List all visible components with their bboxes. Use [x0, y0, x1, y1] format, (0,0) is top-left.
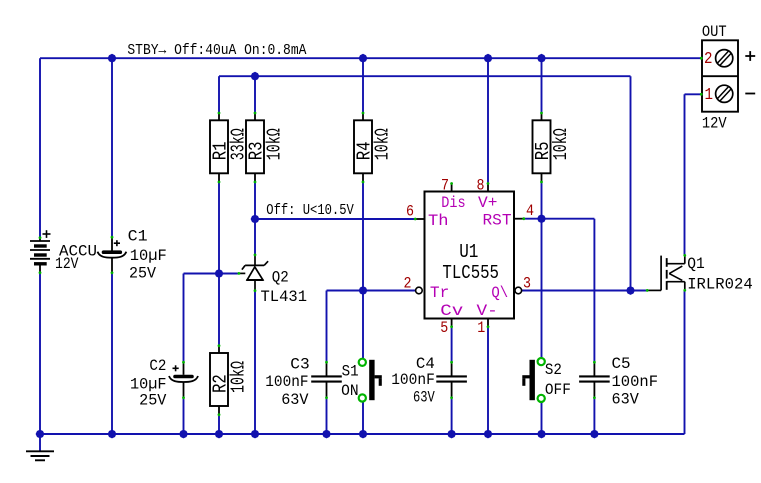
wire V- pin1 to ground rail: [487, 327, 489, 434]
Q2 TL431 anode lead: [254, 280, 256, 291]
U1 pin 8 stub: [487, 183, 489, 191]
svg-text:TL431: TL431: [261, 288, 308, 306]
Q2 TL431 triangle: [247, 267, 263, 280]
svg-text:IRLR024: IRLR024: [687, 276, 753, 294]
junction at 488,58.2: [484, 54, 493, 63]
svg-text:63V: 63V: [612, 390, 640, 408]
wire Th net horizontal: [255, 218, 415, 220]
svg-text:10kΩ: 10kΩ: [264, 128, 286, 160]
resistor R1 pins: [218, 113, 220, 182]
svg-text:5: 5: [440, 319, 448, 337]
svg-text:STBY→ Off:40uA On:0.8mA: STBY→ Off:40uA On:0.8mA: [127, 42, 306, 59]
junction rail 363: [359, 430, 368, 439]
switch S2 button: [522, 360, 535, 400]
svg-text:Tr: Tr: [430, 284, 449, 302]
battery pin ends: [39, 236, 42, 274]
svg-text:10kΩ: 10kΩ: [228, 361, 250, 393]
U1 pin 3 inverting circle: [515, 287, 522, 294]
wire C5 bottom: [593, 398, 595, 434]
Q1 drain connection: [667, 255, 685, 264]
junction at 219,273.5: [215, 269, 224, 278]
wire R5 bottom to RST node: [541, 183, 543, 219]
svg-text:OUT: OUT: [702, 23, 727, 41]
resistor R4 pin ends: [362, 112, 365, 184]
svg-text:12V: 12V: [55, 255, 79, 273]
svg-text:RST: RST: [483, 211, 512, 229]
Q1 bulk arrow: [669, 266, 682, 280]
Q1 gate bar: [660, 256, 662, 291]
resistor R5 pins: [541, 113, 543, 182]
junction rail 183.5: [179, 430, 188, 439]
junction at 255,76.2: [251, 72, 260, 81]
svg-text:C1: C1: [128, 228, 148, 246]
resistor R2 body: [210, 353, 228, 406]
svg-text:8: 8: [477, 177, 485, 195]
switch S2 contacts: [538, 358, 545, 402]
wire V+ pin8 drop: [487, 58, 489, 184]
wire OUT- to Q1 drain: [684, 94, 686, 255]
junction rail 255: [251, 430, 260, 439]
Q2 TL431 cathode bar with ticks: [242, 261, 268, 269]
wire RST to C5 drop: [593, 219, 595, 362]
capacitor C2 plates: [169, 376, 198, 382]
junction at 112,58.2: [108, 54, 117, 63]
battery minus lead: [39, 264, 41, 273]
svg-text:3: 3: [523, 275, 531, 293]
U1 pin 1 stub: [487, 319, 489, 328]
C4 pin ends: [450, 361, 453, 399]
resistor R1 pin ends: [218, 112, 221, 184]
wire output feedback horizontal: [219, 75, 631, 77]
svg-text:2: 2: [704, 49, 713, 68]
wire C4 bottom: [451, 398, 453, 434]
resistor R4 body: [354, 120, 372, 173]
resistor R5 body: [533, 120, 551, 173]
plus terminal sign: [745, 51, 755, 61]
svg-text:7: 7: [441, 177, 449, 195]
wire R4 bottom to Tr node: [362, 183, 364, 291]
svg-text:63V: 63V: [413, 389, 435, 407]
capacitor C5 plates: [579, 376, 610, 381]
junction at 541.5,218.7: [537, 214, 546, 223]
battery plus sign: [43, 230, 51, 238]
svg-text:25V: 25V: [139, 392, 167, 410]
svg-text:Th: Th: [428, 212, 449, 230]
wire R3 top stub: [254, 76, 256, 113]
connector OUT body: [702, 40, 738, 111]
Q2 TL431 anode bar: [246, 279, 263, 281]
svg-text:25V: 25V: [129, 264, 156, 282]
svg-text:10µF: 10µF: [130, 247, 167, 265]
C5 pin ends: [593, 361, 596, 399]
ground symbol: [26, 451, 54, 460]
svg-text:Cv: Cv: [440, 302, 463, 320]
capacitor C3 leads: [326, 362, 328, 398]
svg-text:100nF: 100nF: [265, 373, 308, 391]
capacitor C2 leads: [183, 362, 185, 398]
C1 pin ends: [111, 236, 114, 274]
wire C1 bottom: [111, 273, 113, 434]
wire C3 bottom: [326, 398, 328, 434]
junction at 363,290.5: [359, 286, 368, 295]
wire R2 bottom: [218, 416, 220, 434]
junction rail 219: [215, 430, 224, 439]
wire OUT- horizontal: [685, 93, 702, 95]
capacitor C1 plates: [98, 252, 127, 258]
connector screw terminal 1: [716, 85, 733, 102]
wire Q1 source down: [684, 291, 686, 435]
junction rail 488: [484, 430, 493, 439]
resistor R2 pins: [218, 346, 220, 415]
svg-text:V-: V-: [477, 302, 498, 320]
U1 pin 4 stub: [514, 218, 524, 220]
U1 pin 6 stub: [415, 218, 425, 220]
svg-text:Q1: Q1: [687, 255, 705, 273]
wire C2 drop: [183, 274, 185, 363]
capacitor C4 leads: [451, 362, 453, 398]
wire R1 bottom to ref node: [218, 183, 220, 274]
OUT pin ends: [700, 57, 703, 96]
svg-text:V+: V+: [478, 194, 497, 212]
resistor R3 pins: [254, 113, 256, 182]
wire C2 bottom: [183, 398, 185, 434]
wire left rail battery top: [39, 58, 41, 238]
junction rail 451.6: [447, 430, 456, 439]
capacitor C4 plates: [436, 376, 467, 381]
Q2 pin ends: [238, 254, 257, 293]
connector screw terminal 2: [716, 50, 733, 67]
wire R3 bottom to Th node: [254, 183, 256, 256]
C3 pin ends: [325, 361, 328, 399]
wire feedback vertical to Q node: [630, 76, 632, 290]
C2 plus sign: [173, 365, 179, 371]
svg-text:63V: 63V: [281, 391, 309, 409]
svg-text:S1: S1: [342, 363, 359, 381]
wire +12V top rail: [40, 57, 701, 59]
wire Cv to C4: [451, 327, 453, 362]
Q1 channel dashes: [666, 258, 668, 290]
op-amp U1 TLC555 body: [425, 192, 515, 319]
minus terminal sign: [745, 93, 755, 95]
Q2 TL431 reference pin: [239, 272, 246, 274]
wire ref node horizontal to C2: [184, 273, 239, 275]
battery ACCU plates: [30, 241, 50, 264]
wire C3 drop: [326, 291, 328, 363]
wire S2 bottom: [541, 402, 543, 434]
svg-text:12V: 12V: [702, 115, 727, 133]
svg-text:10kΩ: 10kΩ: [372, 128, 394, 160]
wire C1 top: [111, 58, 113, 237]
svg-text:ON: ON: [341, 382, 359, 400]
svg-text:C5: C5: [612, 355, 631, 373]
wire RST horizontal: [524, 218, 594, 220]
resistor R3 body: [246, 120, 264, 173]
transistor Q1 gate lead: [647, 289, 661, 291]
capacitor C3 plates: [311, 376, 342, 381]
junction rail 541.5: [537, 430, 546, 439]
U1 pin 7 stub: [451, 183, 453, 191]
svg-text:10kΩ: 10kΩ: [550, 128, 572, 160]
resistor R5 pin ends: [540, 112, 543, 184]
junction rail 594.4: [590, 430, 599, 439]
svg-text:OFF: OFF: [545, 381, 571, 399]
junction at 363,58.2: [359, 54, 368, 63]
capacitor C5 leads: [593, 362, 595, 398]
wire S1 bottom: [362, 402, 364, 434]
junction rail 326.5: [322, 430, 331, 439]
svg-text:Off: U<10.5V: Off: U<10.5V: [266, 202, 354, 219]
U1 pin ends: [414, 182, 525, 328]
wire rail to ground symbol: [39, 434, 41, 451]
Q1 pin ends: [646, 254, 686, 292]
junction at 255,219: [251, 215, 260, 224]
resistor R3 pin ends: [254, 112, 257, 184]
junction at 541.5,58.2: [537, 54, 546, 63]
transistor Q2 TL431 cathode lead: [254, 255, 256, 266]
wire TL431 anode down: [254, 291, 256, 434]
resistor R2 pin ends: [218, 344, 221, 416]
junction at 630.5,290.5: [626, 286, 635, 295]
wire R1 top stub: [218, 76, 220, 113]
C1 plus sign: [114, 240, 120, 246]
switch S1 contacts: [359, 359, 366, 402]
svg-text:C2: C2: [149, 357, 166, 375]
U1 pin 5 stub: [451, 319, 453, 328]
resistor R4 pins: [362, 113, 364, 182]
svg-text:S2: S2: [545, 361, 562, 379]
wire Q output to gate: [522, 290, 648, 292]
svg-text:100nF: 100nF: [391, 371, 435, 389]
svg-text:2: 2: [404, 275, 412, 293]
svg-text:Dis: Dis: [441, 194, 465, 212]
wire Tr node to S1: [362, 291, 364, 359]
svg-text:6: 6: [406, 203, 414, 221]
capacitor C1 leads: [111, 237, 113, 273]
wire R4 top: [362, 58, 364, 113]
svg-text:1: 1: [477, 319, 485, 337]
U1 pin 2 inverting circle: [416, 287, 423, 294]
svg-text:TLC555: TLC555: [442, 262, 499, 284]
wire R5 top: [541, 58, 543, 113]
svg-text:100nF: 100nF: [612, 373, 659, 391]
wire Tr horizontal: [327, 290, 416, 292]
svg-text:Q2: Q2: [272, 269, 289, 287]
svg-text:U1: U1: [459, 241, 478, 263]
Q1 source connection: [667, 282, 685, 291]
switch S1 button: [369, 360, 382, 400]
C2 pin ends: [182, 361, 185, 399]
wire battery minus to rail: [39, 273, 41, 435]
svg-text:Q\: Q\: [491, 284, 508, 302]
svg-text:C3: C3: [290, 356, 309, 374]
svg-text:1: 1: [705, 85, 714, 104]
battery ACCU plus lead: [39, 238, 41, 242]
wire GND bottom rail: [40, 433, 685, 435]
svg-text:10µF: 10µF: [130, 375, 167, 393]
resistor R1 body: [210, 120, 228, 173]
wire RST node to S2: [541, 219, 543, 358]
wire ref node to R2: [218, 274, 220, 347]
junction rail 112: [108, 430, 117, 439]
junction rail 40: [36, 430, 45, 439]
svg-text:4: 4: [526, 202, 534, 220]
